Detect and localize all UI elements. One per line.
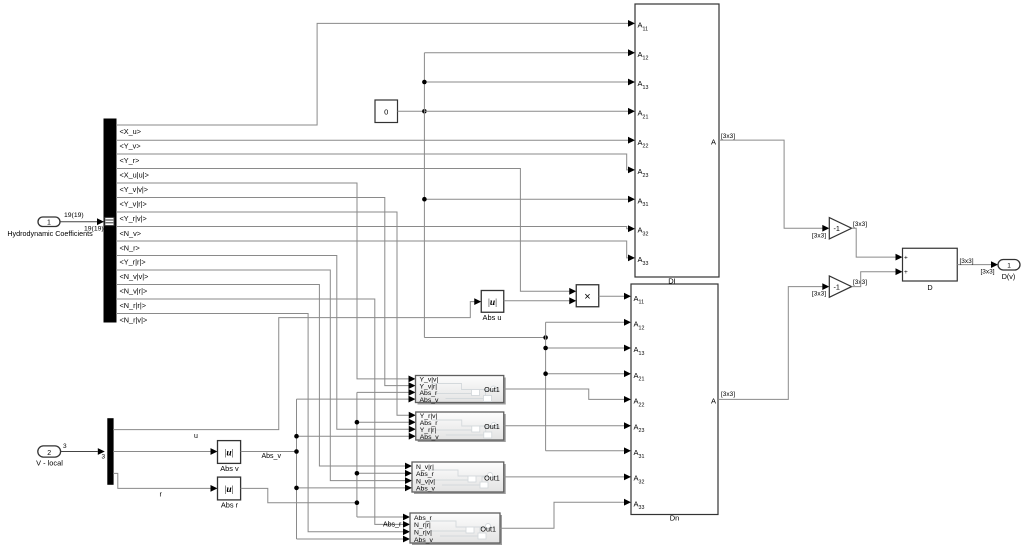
svg-text:<Y_r>: <Y_r> <box>120 156 140 165</box>
svg-text:2: 2 <box>47 450 51 457</box>
label [3x3] Dn output <box>721 391 735 398</box>
outport 1 D(v) <box>998 260 1020 282</box>
wire <Y_r> bus to DI A23 <box>116 154 635 173</box>
svg-text:[3x3]: [3x3] <box>812 290 826 297</box>
svg-text:N_v|r|: N_v|r| <box>416 464 434 471</box>
svg-text:Y_r|r|: Y_r|r| <box>420 427 437 434</box>
wire <N_r|r|> bus to subsystem4 <box>116 299 410 528</box>
svg-text:[3x3]: [3x3] <box>981 269 995 276</box>
label <X_u|u|> <box>120 171 149 180</box>
subsystem S2 Yr <box>416 412 506 442</box>
node junction Abs_v S3 <box>294 486 299 491</box>
node junction 0 to Dn A21 <box>543 371 548 376</box>
svg-text:Abs_v: Abs_v <box>420 434 439 441</box>
svg-text:Abs_v: Abs_v <box>262 453 282 460</box>
svg-text:A: A <box>711 396 716 405</box>
svg-text:Abs_r: Abs_r <box>420 420 438 427</box>
svg-text:N_r|r|: N_r|r| <box>414 522 431 529</box>
inport 1 Hydrodynamic Coefficients <box>7 217 93 238</box>
product block <box>576 285 599 307</box>
svg-text:<N_r>: <N_r> <box>120 244 140 253</box>
wire gain2 to sum <box>852 268 903 286</box>
label <X_u> <box>120 127 142 136</box>
svg-text:3: 3 <box>63 443 67 450</box>
wire 0 to Dn A21 <box>546 370 631 377</box>
svg-text:[3x3]: [3x3] <box>721 391 735 398</box>
label [3x3] gain1 input <box>812 232 826 239</box>
svg-text:<X_u>: <X_u> <box>120 127 142 136</box>
wire <N_r> bus to DI A33 <box>116 241 635 261</box>
wire Abs r output <box>241 488 357 502</box>
node junction Abs_v S2 <box>294 434 299 439</box>
svg-text:Abs_v: Abs_v <box>416 486 435 493</box>
svg-text:[3x3]: [3x3] <box>721 133 735 140</box>
svg-text:Dn: Dn <box>670 514 680 523</box>
wire Abs_r vertical <box>356 392 358 517</box>
label r <box>160 491 163 498</box>
wire 0 to DI A12 <box>424 49 635 56</box>
node junction Abs_r feed <box>355 500 360 505</box>
svg-text:<N_r|r|>: <N_r|r|> <box>120 301 147 310</box>
wire <Y_v> bus to DI A22 <box>116 137 635 144</box>
svg-text:A: A <box>711 138 716 147</box>
demux <box>108 419 113 485</box>
label [3x3] gain2 input <box>812 290 826 297</box>
svg-text:Abs_v: Abs_v <box>420 397 439 404</box>
label <Y_v> <box>120 142 141 151</box>
subsystem S3 Nv <box>412 462 506 494</box>
label <N_r|r|> <box>120 301 147 310</box>
gain -1 upper <box>829 218 851 239</box>
wire DI output A to gain1 <box>719 140 829 232</box>
constant 0 <box>375 100 398 123</box>
label 3 at inport2 <box>63 443 67 450</box>
svg-text:19(19): 19(19) <box>64 212 84 219</box>
label 19(19) upper <box>64 212 84 219</box>
wire u demux to Abs u <box>113 298 481 429</box>
label [3x3] sum output upper <box>960 258 974 265</box>
wire Abs v output <box>241 451 297 453</box>
svg-text:-1: -1 <box>834 224 840 233</box>
svg-text:Out1: Out1 <box>484 422 500 431</box>
svg-text:Abs u: Abs u <box>483 313 502 322</box>
svg-text:Abs_v: Abs_v <box>414 537 433 544</box>
label <N_v|v|> <box>120 272 149 281</box>
node junction 0-net main <box>422 109 427 114</box>
wire <Y_r|r|> bus to subsystem2 <box>116 256 416 433</box>
inport 2 V - local <box>36 446 63 468</box>
node junction 0 to A13 <box>422 80 427 85</box>
svg-text:Abs_r: Abs_r <box>414 515 432 522</box>
subsystem S4 Nr <box>410 513 502 545</box>
svg-text:-1: -1 <box>834 282 840 291</box>
svg-text:V - local: V - local <box>36 459 63 468</box>
wire <Y_r|v|> bus to subsystem2 <box>116 212 416 419</box>
wire 0 to Dn A31 <box>546 447 631 454</box>
bus selector <box>104 119 116 322</box>
node junction 0-net Dn side <box>543 335 548 340</box>
label <Y_r> <box>120 156 140 165</box>
svg-text:N_r|v|: N_r|v| <box>414 530 432 537</box>
gain -1 lower <box>829 276 851 297</box>
svg-text:u: u <box>194 433 198 440</box>
label 19(19) lower <box>84 226 104 233</box>
sum block D <box>903 248 958 292</box>
wire Abs_r to subsystem2 <box>357 419 416 426</box>
svg-text:[3x3]: [3x3] <box>853 221 867 228</box>
svg-text:Abs r: Abs r <box>221 501 239 510</box>
block Abs u <box>481 291 504 323</box>
label Abs_v <box>262 453 282 460</box>
wire Abs_v to subsystem4 <box>297 536 411 543</box>
block Dn nonlinear damping matrix <box>631 284 718 523</box>
wire inport2 to demux <box>61 448 105 455</box>
node junction Abs_r S2 <box>355 420 360 425</box>
svg-text:<Y_r|v|>: <Y_r|v|> <box>120 214 147 223</box>
svg-text:<N_v|r|>: <N_v|r|> <box>120 287 148 296</box>
svg-text:<Y_v|r|>: <Y_v|r|> <box>120 200 147 209</box>
svg-text:Out1: Out1 <box>484 473 500 482</box>
svg-text:1: 1 <box>1007 262 1011 269</box>
svg-text:[3x3]: [3x3] <box>853 279 867 286</box>
wire 0 to Dn A12 <box>546 319 631 326</box>
node junction 0 to A31 <box>422 197 427 202</box>
wire <X_u> bus to DI A11 <box>116 20 635 125</box>
bus selector input port icon <box>105 217 114 225</box>
label <N_v> <box>120 229 142 238</box>
wire 0 to DI A21 <box>424 108 635 115</box>
wire S4 Out1 to Dn A33 <box>500 499 631 529</box>
label [3x3] gain2 output <box>853 279 867 286</box>
svg-text:|u|: |u| <box>224 485 233 495</box>
label <Y_v|r|> <box>120 200 147 209</box>
svg-text:Hydrodynamic Coefficients: Hydrodynamic Coefficients <box>7 229 93 238</box>
node junction Abs_v feed <box>294 449 299 454</box>
wire Abs_v to subsystem3 <box>297 485 413 492</box>
wire constant 0 output <box>398 110 425 112</box>
wire <Y_v|r|> bus to subsystem1 <box>116 198 416 390</box>
svg-text:Abs_r: Abs_r <box>416 471 434 478</box>
wire product to Dn A11 <box>599 293 631 300</box>
label u <box>194 433 198 440</box>
wire <X_u|u|> bus to product <box>116 169 576 295</box>
wire <N_v|v|> bus to subsystem3 <box>116 270 412 484</box>
svg-text:Out1: Out1 <box>484 385 500 394</box>
svg-text:+: + <box>904 255 908 262</box>
wire S3 Out1 to Dn A32 <box>504 474 631 481</box>
wire Abs u to product <box>504 297 577 304</box>
wire S2 Out1 to Dn A23 <box>504 422 631 429</box>
svg-text:|u|: |u| <box>488 298 497 308</box>
svg-text:<Y_r|r|>: <Y_r|r|> <box>120 258 146 267</box>
svg-text:+: + <box>904 269 908 276</box>
svg-text:×: × <box>584 291 590 303</box>
svg-text:Abs v: Abs v <box>220 464 239 473</box>
subsystem S1 Yv <box>416 376 506 405</box>
svg-text:<N_r|v|>: <N_r|v|> <box>120 316 148 325</box>
svg-text:Y_r|v|: Y_r|v| <box>420 413 438 420</box>
svg-text:19(19): 19(19) <box>84 226 104 233</box>
wire Abs_r to subsystem4 <box>357 514 410 521</box>
wire Abs_v vertical <box>296 399 298 539</box>
svg-text:0: 0 <box>384 107 388 116</box>
svg-text:|u|: |u| <box>224 449 233 459</box>
svg-text:<X_u|u|>: <X_u|u|> <box>120 171 149 180</box>
wire 0-net vertical right <box>545 322 547 451</box>
svg-text:D: D <box>927 283 932 292</box>
wire <N_r|v|> bus to subsystem4 <box>116 314 410 536</box>
wire Dn output A to gain2 <box>718 283 829 399</box>
label <N_r|v|> <box>120 316 148 325</box>
wire 0-net bottom link <box>424 337 545 339</box>
block Abs v <box>218 441 241 473</box>
label [3x3] gain1 output <box>853 221 867 228</box>
wire Abs_v to subsystem1 <box>297 396 416 403</box>
wire inport1 to bus selector <box>61 218 105 225</box>
wire <N_v|r|> bus to subsystem3 <box>116 285 412 470</box>
svg-text:[3x3]: [3x3] <box>960 258 974 265</box>
label <Y_r|r|> <box>120 258 146 267</box>
wire v demux to Abs v <box>113 448 217 455</box>
wire r demux to Abs r <box>113 473 217 491</box>
wire 0 to DI A31 <box>424 196 635 203</box>
svg-text:1: 1 <box>47 220 51 227</box>
svg-text:[3x3]: [3x3] <box>812 232 826 239</box>
wire Abs_v to subsystem2 <box>297 433 416 440</box>
svg-text:N_v|v|: N_v|v| <box>416 478 435 485</box>
svg-text:Out1: Out1 <box>480 524 496 533</box>
wire <Y_v|v|> bus to subsystem1 <box>116 183 416 382</box>
wire gain1 to sum <box>852 228 903 260</box>
svg-text:<N_v>: <N_v> <box>120 229 142 238</box>
svg-text:Abs_r: Abs_r <box>383 521 402 528</box>
label [3x3] DI output <box>721 133 735 140</box>
label [3x3] sum output lower <box>981 269 995 276</box>
wire <N_v> bus to DI A32 <box>116 225 635 232</box>
wire 0-net vertical left <box>423 53 425 338</box>
svg-text:<N_v|v|>: <N_v|v|> <box>120 272 149 281</box>
block Abs r <box>218 477 241 509</box>
wire sum to outport <box>957 261 998 268</box>
wire Abs_r to subsystem1 <box>357 389 416 396</box>
label <N_r> <box>120 244 140 253</box>
label 3 at demux <box>102 454 106 461</box>
label <N_v|r|> <box>120 287 148 296</box>
wire 0 to Dn A13 <box>546 345 631 352</box>
svg-text:<Y_v>: <Y_v> <box>120 142 141 151</box>
block DI linear damping matrix <box>635 4 719 285</box>
wire 0 to DI A13 <box>424 79 635 86</box>
label <Y_v|v|> <box>120 185 149 194</box>
svg-text:3: 3 <box>102 454 106 461</box>
wire S1 Out1 to Dn A22 <box>504 389 631 403</box>
svg-text:D(v): D(v) <box>1002 272 1016 281</box>
wire Abs_r to subsystem3 <box>357 470 412 477</box>
svg-text:<Y_v|v|>: <Y_v|v|> <box>120 185 149 194</box>
node junction 0 to Dn A13 <box>543 346 548 351</box>
label <Y_r|v|> <box>120 214 147 223</box>
node junction Abs_r S3 <box>355 471 360 476</box>
label Abs_r <box>383 521 402 528</box>
